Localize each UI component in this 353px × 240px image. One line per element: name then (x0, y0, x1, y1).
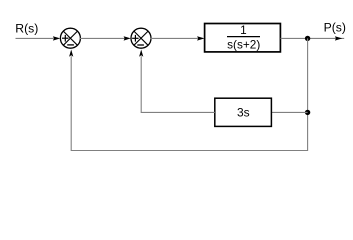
svg-text:s(s+2): s(s+2) (227, 38, 260, 52)
wire summer 2 to block G (151, 37, 198, 39)
svg-text:P(s): P(s) (324, 20, 346, 34)
wire node B to block H (272, 111, 308, 113)
wire block G to P(s) output (281, 37, 345, 39)
wire block H to summer 2 (141, 56, 215, 112)
wire R(s) input to summer 1 (16, 37, 54, 39)
svg-text:R(s): R(s) (15, 21, 38, 35)
summing junction S1 (60, 28, 80, 48)
block H 3s (215, 98, 272, 126)
summing junction S2 (131, 28, 151, 48)
wire outer feedback: node A down, bottom run, up to summer 1 (71, 38, 307, 150)
block G 1/s(s+2) (205, 23, 281, 52)
node A pickoff dot (305, 36, 310, 41)
svg-text:3s: 3s (237, 105, 250, 119)
wire summer 1 to summer 2 (80, 37, 125, 39)
svg-text:1: 1 (240, 23, 247, 37)
node B pickoff dot (305, 110, 310, 115)
